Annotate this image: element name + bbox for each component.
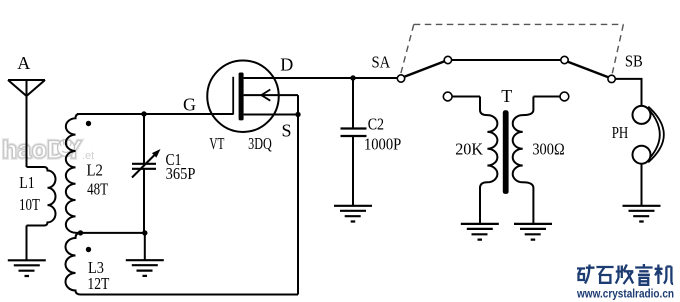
node S junction bbox=[295, 112, 300, 117]
switch SA pole bbox=[397, 75, 404, 82]
capacitor C2 bbox=[341, 78, 367, 206]
transistor gate line bbox=[232, 77, 234, 115]
wire to transformer secondary bbox=[533, 96, 560, 98]
label L1 bbox=[19, 173, 35, 192]
switch SB pole bbox=[608, 75, 615, 82]
wire S stub bbox=[244, 114, 298, 116]
ground under phones bbox=[623, 206, 661, 222]
label G bbox=[183, 94, 196, 114]
svg-text:www.crystalradio.cn: www.crystalradio.cn bbox=[576, 287, 674, 301]
logo hanzi ji bbox=[655, 265, 674, 285]
svg-text:300Ω: 300Ω bbox=[532, 140, 564, 159]
svg-text:SB: SB bbox=[625, 52, 643, 71]
wire L1 to ground bbox=[26, 226, 28, 261]
inductor L1 bbox=[27, 167, 56, 226]
wire bottom rail bbox=[81, 294, 298, 296]
wire top link bbox=[452, 59, 561, 61]
capacitor C1 (variable) bbox=[132, 114, 161, 233]
label SB bbox=[625, 52, 643, 71]
wire phones to ground bbox=[641, 164, 643, 206]
wire G rail (L2 top to gate) bbox=[77, 113, 233, 115]
label PH bbox=[612, 123, 629, 142]
label T bbox=[501, 86, 512, 106]
inductor L2 bbox=[66, 114, 79, 233]
node L2-L3 junction bbox=[78, 230, 83, 235]
watermark haoDY bbox=[2, 136, 94, 164]
wire C1 to ground bbox=[144, 233, 146, 260]
switch T right contact bbox=[560, 92, 569, 101]
label 10T bbox=[19, 195, 40, 214]
switch SA upper contact bbox=[444, 56, 451, 63]
antenna A label bbox=[17, 53, 30, 73]
svg-text:D: D bbox=[280, 55, 293, 75]
switch SB upper contact bbox=[561, 56, 568, 63]
label S bbox=[281, 121, 291, 141]
svg-text:T: T bbox=[501, 86, 512, 106]
node C1 bottom junction bbox=[142, 230, 147, 235]
wire to transformer primary bbox=[452, 96, 480, 98]
label 12T bbox=[87, 274, 109, 293]
svg-text:C2: C2 bbox=[368, 114, 384, 133]
transistor arrow bbox=[244, 90, 298, 101]
label 300ohm bbox=[532, 140, 564, 159]
label 48T bbox=[87, 180, 108, 199]
antenna ANT bbox=[8, 80, 45, 96]
ground under L1 bbox=[8, 260, 46, 276]
switch SA arm bbox=[404, 61, 444, 77]
svg-text:A: A bbox=[17, 53, 30, 73]
transformer secondary winding bbox=[513, 97, 534, 224]
label L2 bbox=[87, 160, 103, 179]
svg-text:S: S bbox=[281, 121, 291, 141]
svg-text:SA: SA bbox=[371, 53, 390, 72]
inductor L3 bbox=[66, 233, 82, 295]
ground under C2 bbox=[334, 206, 372, 222]
logo hanzi kuang bbox=[577, 265, 595, 284]
wire D rail bbox=[244, 77, 398, 79]
svg-text:G: G bbox=[183, 94, 196, 114]
phones PH bbox=[633, 106, 664, 164]
transformer core bbox=[503, 110, 509, 194]
label VT bbox=[209, 134, 224, 153]
label C1 bbox=[166, 150, 182, 169]
dashed gang link bbox=[401, 24, 624, 73]
label D bbox=[280, 55, 293, 75]
wire SB to phones bbox=[615, 79, 641, 106]
svg-text:VT: VT bbox=[209, 134, 224, 153]
transistor channel bar bbox=[239, 73, 244, 121]
ground under C1 bbox=[126, 260, 164, 276]
transformer primary winding bbox=[480, 97, 497, 224]
svg-text:L2: L2 bbox=[87, 160, 103, 179]
transistor VT circle bbox=[207, 60, 279, 132]
svg-text:365P: 365P bbox=[166, 164, 196, 183]
logo hanzi yin bbox=[635, 264, 652, 285]
svg-text:L1: L1 bbox=[19, 173, 35, 192]
svg-text:PH: PH bbox=[612, 123, 629, 142]
label SA bbox=[371, 53, 390, 72]
svg-text:48T: 48T bbox=[87, 180, 108, 199]
logo url bbox=[576, 287, 674, 301]
svg-text:3DQ: 3DQ bbox=[248, 134, 272, 153]
wire middle junction rail bbox=[76, 232, 145, 234]
switch SB arm bbox=[568, 62, 609, 77]
label L3 bbox=[88, 258, 104, 277]
L2 phase dot bbox=[86, 121, 91, 126]
logo hanzi shou bbox=[616, 265, 634, 285]
svg-text:10T: 10T bbox=[19, 195, 40, 214]
label 3DQ bbox=[248, 134, 272, 153]
wire S vertical bbox=[297, 95, 299, 294]
svg-text:20K: 20K bbox=[455, 140, 483, 159]
L3 phase dot bbox=[86, 247, 91, 252]
ground under primary bbox=[461, 224, 499, 240]
ground under secondary bbox=[514, 224, 552, 240]
label C2 bbox=[368, 114, 384, 133]
logo hanzi shi bbox=[596, 267, 613, 283]
node C2 junction bbox=[350, 75, 355, 80]
label 20K bbox=[455, 140, 483, 159]
node C1 top junction bbox=[141, 111, 146, 116]
label 1000P bbox=[364, 135, 401, 154]
svg-text:1000P: 1000P bbox=[364, 135, 401, 154]
switch T left contact bbox=[443, 92, 452, 101]
label 365P bbox=[166, 164, 196, 183]
svg-text:12T: 12T bbox=[87, 274, 109, 293]
wire antenna down bbox=[26, 95, 28, 167]
